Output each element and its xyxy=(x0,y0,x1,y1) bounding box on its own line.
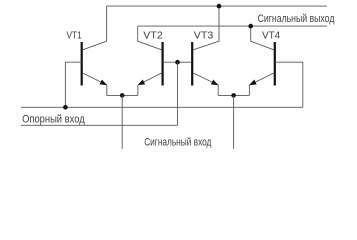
VT4 emitter lead with arrow xyxy=(249,73,273,85)
svg-text:VT2: VT2 xyxy=(143,29,163,41)
VT1 base lead xyxy=(65,62,81,107)
svg-text:VT1: VT1 xyxy=(67,29,82,41)
svg-text:VT3: VT3 xyxy=(194,29,214,41)
VT4 base lead xyxy=(275,62,303,107)
VT3 emitter lead with arrow xyxy=(193,73,218,85)
wire: VT1-VT2 emitter link xyxy=(107,94,138,96)
svg-text:Опорный вход: Опорный вход xyxy=(22,113,85,125)
wire: pair 1 tail down xyxy=(121,95,123,149)
node: pair 2 emitter junction xyxy=(231,93,236,98)
transistor VT1 base bar xyxy=(81,42,83,86)
node: pair 1 emitter junction xyxy=(120,93,125,98)
wire: signal output top rail xyxy=(107,5,327,7)
wire: VT3-VT4 emitter link xyxy=(218,94,249,96)
wire: signal input rail (Сигнальный вход) xyxy=(21,124,178,126)
node: VT1 base on reference rail xyxy=(63,105,68,110)
VT2 emitter riser xyxy=(137,85,139,95)
node: VT4 collector on second rail xyxy=(248,24,253,29)
wire: second output rail xyxy=(138,25,327,27)
VT1 emitter lead with arrow xyxy=(83,73,107,85)
VT4 collector lead (to second rail node) xyxy=(251,26,274,50)
wire: pair 2 tail down xyxy=(233,95,235,149)
VT1 emitter riser xyxy=(106,85,108,95)
wire: base junction riser to signal input rail xyxy=(177,62,179,125)
VT3 emitter riser xyxy=(217,85,219,95)
VT1 collector lead (to top rail corner) xyxy=(83,6,107,50)
wire: VT2-VT3 base link xyxy=(163,61,193,63)
transistor VT3 base bar xyxy=(191,42,193,86)
svg-text:Сигнальный выход: Сигнальный выход xyxy=(258,13,335,25)
wire: reference input rail (Опорный вход) xyxy=(21,106,303,108)
transistor VT2 base bar xyxy=(162,42,164,86)
VT3 collector lead (to top rail node) xyxy=(193,6,219,50)
VT2 collector lead (to second rail corner) xyxy=(138,26,162,50)
VT4 emitter riser xyxy=(248,85,250,95)
node: common base junction xyxy=(175,60,180,65)
svg-text:VT4: VT4 xyxy=(262,29,280,41)
svg-text:Сигнальный вход: Сигнальный вход xyxy=(144,137,212,149)
VT2 emitter lead with arrow xyxy=(138,73,162,85)
node: VT3 collector on top rail xyxy=(217,4,222,9)
transistor VT4 base bar xyxy=(274,42,276,86)
